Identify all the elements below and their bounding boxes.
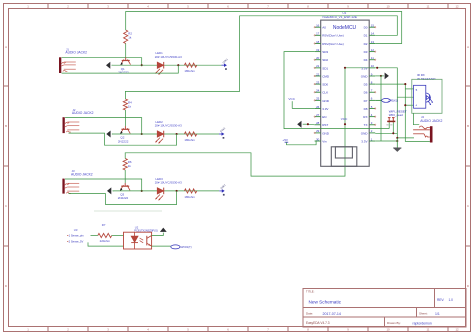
svg-text:12: 12 <box>455 4 459 8</box>
U1 pin 25 GND <box>314 97 330 103</box>
U1 pin 6 D7 <box>364 97 376 103</box>
svg-text:NodeMCU_V1_ESP-12E: NodeMCU_V1_ESP-12E <box>323 15 357 19</box>
svg-text:+5V: +5V <box>282 138 289 142</box>
svg-text:180ohm: 180ohm <box>184 69 195 73</box>
junction 3.3V pin10 <box>376 67 378 69</box>
svg-text:D3: D3 <box>364 50 368 54</box>
U1 pin 28 RST <box>315 121 329 127</box>
wire IR box to J4 tip <box>413 113 419 124</box>
svg-text:3.3V: 3.3V <box>361 66 368 70</box>
svg-text:14: 14 <box>371 32 375 36</box>
U1 pin 21 SD1 <box>314 64 328 70</box>
audio jack J1 <box>59 47 87 73</box>
svg-text:REV:: REV: <box>437 298 444 302</box>
svg-text:11: 11 <box>371 56 374 60</box>
optocoupler U2 PC817 <box>124 226 158 249</box>
junction IR pin3 node <box>404 104 406 106</box>
U1 pin 7 D6 <box>364 89 376 95</box>
U1 USB connector outline <box>331 147 357 167</box>
svg-text:2 Sense_5V: 2 Sense_5V <box>69 239 84 243</box>
svg-text:29: 29 <box>316 129 320 133</box>
junction VCC center <box>344 123 346 125</box>
U1 pin 12 D3 <box>364 48 376 54</box>
svg-text:1/1: 1/1 <box>435 312 440 316</box>
wire jack J2 tip to collector node <box>65 118 142 134</box>
svg-text:A: A <box>5 45 7 49</box>
LED LED2 <box>155 120 182 144</box>
svg-text:B: B <box>467 124 469 128</box>
svg-text:25: 25 <box>316 97 320 101</box>
junction LED3 cathode <box>176 190 178 192</box>
wire sense2 to opto pin2 <box>88 242 124 246</box>
net port D0K1 <box>219 183 227 195</box>
wire 3.3V pin1 to right vertical <box>375 140 397 142</box>
svg-text:IR RECEIVER: IR RECEIVER <box>417 77 435 81</box>
wire LED2 return to jack sleeve <box>69 133 177 145</box>
svg-text:180ohm: 180ohm <box>184 138 195 142</box>
resistor 180ohm block 3 <box>184 189 196 199</box>
svg-text:GND: GND <box>361 131 369 135</box>
U1 pin 18 RSV(Don't Use) <box>314 40 344 46</box>
svg-text:raptordemon: raptordemon <box>413 321 432 325</box>
junction GND pin9 <box>380 75 382 77</box>
junction LED2 cathode <box>176 133 178 135</box>
svg-text:D7: D7 <box>364 99 368 103</box>
svg-text:22: 22 <box>316 72 320 76</box>
svg-text:Vin: Vin <box>322 139 327 143</box>
junction RST <box>307 123 309 125</box>
resistor R4 1k <box>123 99 132 110</box>
wire R1 bottom to transistor base <box>125 44 127 58</box>
U1 pin 11 D4 <box>364 56 376 62</box>
U1 pin 14 D1 <box>364 32 376 38</box>
title block <box>303 289 466 328</box>
svg-text:Drawn By:: Drawn By: <box>387 321 401 325</box>
U1 pin 20 SD2 <box>314 56 328 62</box>
junction 3.3V pin1 <box>396 140 398 142</box>
svg-text:D1: D1 <box>364 34 368 38</box>
wire opto pin4 up <box>152 233 164 236</box>
junction center vertical <box>344 67 346 69</box>
svg-text:SD0: SD0 <box>322 83 328 87</box>
U1 pin 8 D5 <box>364 80 376 86</box>
resistor R2 1k <box>124 30 133 44</box>
power flag +5V <box>282 138 289 145</box>
audio jack J4 <box>413 115 442 142</box>
svg-text:D4: D4 <box>364 58 368 62</box>
svg-text:28: 28 <box>316 121 320 125</box>
transistor Q2 2N2222 <box>118 126 130 143</box>
svg-text:WIFI_read: WIFI_read <box>389 113 403 117</box>
svg-text:CMD: CMD <box>322 74 330 78</box>
wire rail block 3 <box>113 190 219 192</box>
svg-text:13: 13 <box>371 40 375 44</box>
junction node block 2 <box>141 133 143 135</box>
svg-text:10: 10 <box>371 64 375 68</box>
U1 pin 4 RX <box>363 113 376 119</box>
U1 pin 19 SD3 <box>315 48 329 54</box>
svg-text:Sheet:: Sheet: <box>419 312 428 316</box>
junction node block 3 <box>141 190 143 192</box>
NodeMCU module U1 <box>321 11 370 166</box>
resistor R6 1k <box>123 159 132 171</box>
wire sense pin to R7 <box>91 235 98 237</box>
net flag arrow up <box>160 228 167 232</box>
optocoupler U3 labels <box>67 228 84 243</box>
svg-text:19: 19 <box>316 48 320 52</box>
wire GND node to J4 middle pin <box>397 137 414 139</box>
wire rail block 1 <box>112 64 222 66</box>
svg-text:SD2: SD2 <box>322 58 328 62</box>
svg-text:20# 10UYC/S530-A3: 20# 10UYC/S530-A3 <box>155 181 182 185</box>
svg-text:GND: GND <box>322 99 330 103</box>
svg-text:A: A <box>467 45 469 49</box>
audio jack J2 <box>63 108 94 133</box>
transistor Q1 2N2222 <box>118 57 130 74</box>
ground symbol <box>393 138 401 152</box>
stray wire segment <box>94 210 162 212</box>
svg-text:30: 30 <box>316 137 320 141</box>
wire GND pin9 stub <box>375 75 381 77</box>
wire opto pin3 to net port <box>152 245 171 247</box>
U1 pin 22 CMD <box>314 72 330 78</box>
resistor 180ohm block 2 <box>184 132 196 142</box>
net port D2K1 <box>222 57 230 69</box>
svg-text:CLK: CLK <box>322 91 328 95</box>
svg-text:1k: 1k <box>128 35 132 39</box>
svg-text:AUDIO JACK2: AUDIO JACK2 <box>65 51 87 55</box>
push button S1 WIFI_RESET <box>386 110 406 125</box>
U1 pin 9 GND <box>361 72 375 78</box>
svg-text:2PE(K1): 2PE(K1) <box>388 99 398 103</box>
U1 pin 13 D2 <box>364 40 376 46</box>
svg-text:16: 16 <box>316 24 320 28</box>
transistor Q3 2N2222 <box>118 183 130 200</box>
svg-text:21: 21 <box>316 64 320 68</box>
svg-text:AUDIO JACK2: AUDIO JACK2 <box>420 119 442 123</box>
net flag arrow block 2 <box>106 131 113 138</box>
svg-text:12: 12 <box>455 327 459 331</box>
net flag arrow RST <box>297 121 315 128</box>
svg-text:3.3V: 3.3V <box>322 107 329 111</box>
net flag arrow block 1 <box>106 62 113 69</box>
svg-text:GPIO1(T): GPIO1(T) <box>180 245 191 249</box>
wire jack J1 tip to collector node <box>62 58 142 65</box>
svg-text:RSV(Don't Use): RSV(Don't Use) <box>322 42 344 46</box>
wire rail block 2 <box>112 133 219 135</box>
svg-text:D: D <box>5 284 7 288</box>
svg-text:RST: RST <box>322 123 328 127</box>
svg-text:D6: D6 <box>364 91 368 95</box>
svg-text:D5: D5 <box>364 83 368 87</box>
power flag VCC center <box>341 117 348 121</box>
U1 pin 30 Vin <box>315 137 327 143</box>
svg-text:2N2222: 2N2222 <box>118 71 129 75</box>
junction node block 1 <box>141 64 143 66</box>
svg-text:VCC: VCC <box>288 97 295 101</box>
svg-text:23: 23 <box>316 80 320 84</box>
net port D1K1 <box>219 126 227 138</box>
wire +5V to Vin pin 30 <box>286 141 316 145</box>
wire 3.3V pin10 down right side <box>375 68 397 138</box>
svg-text:VCC: VCC <box>341 117 348 121</box>
svg-text:11: 11 <box>427 327 430 331</box>
junction button leg <box>392 132 394 134</box>
resistor R7 220ohm <box>98 223 112 243</box>
title block text <box>306 290 453 326</box>
svg-text:+: + <box>415 104 417 108</box>
svg-text:1k: 1k <box>128 164 132 168</box>
svg-text:U3: U3 <box>74 228 78 232</box>
U1 pin 23 SD0 <box>314 80 328 86</box>
LED LED3 <box>155 177 182 201</box>
wire SD3 loop across to button <box>284 52 389 129</box>
svg-text:AUDIO JACK2: AUDIO JACK2 <box>71 173 93 177</box>
LED LED1 <box>155 51 182 75</box>
svg-text:Date:: Date: <box>306 312 313 316</box>
wire to IR pin 1 <box>405 88 413 90</box>
svg-text:18: 18 <box>316 40 320 44</box>
power flag VCC left <box>288 97 295 108</box>
svg-text:SD1: SD1 <box>322 66 328 70</box>
U1 pin 5 D8 <box>364 105 376 111</box>
wire button right leg to GND rail <box>392 123 394 134</box>
wire GND pin2 rail <box>375 132 397 134</box>
svg-text:RX: RX <box>363 115 367 119</box>
svg-text:D8: D8 <box>364 107 368 111</box>
audio jack J3 <box>62 169 92 193</box>
U1 pin 15 D0 <box>364 24 376 30</box>
wire LED3 return to jack sleeve <box>68 191 176 205</box>
U1 pin 1 3.3V <box>361 137 375 143</box>
svg-text:D2: D2 <box>364 42 368 46</box>
svg-text:10: 10 <box>386 4 390 8</box>
svg-text:GND: GND <box>361 74 369 78</box>
svg-text:GND: GND <box>322 131 330 135</box>
svg-text:2N2222: 2N2222 <box>118 196 129 200</box>
wire to IR pin 3 <box>405 104 413 106</box>
net flag arrow GND9 <box>381 73 389 80</box>
net port oval D7 <box>375 99 398 103</box>
wire VCC to 3.3V pin 26 <box>292 108 315 110</box>
U1 pin 29 GND <box>314 129 330 135</box>
svg-text:180ohm: 180ohm <box>184 195 195 199</box>
svg-text:2017-07-14: 2017-07-14 <box>323 312 341 316</box>
svg-text:15: 15 <box>371 24 375 28</box>
net port oval GPIO <box>171 245 192 249</box>
svg-text:D: D <box>467 284 469 288</box>
junction LED1 cathode <box>177 64 179 66</box>
wire R2 bottom to transistor base <box>124 110 126 126</box>
svg-text:A0: A0 <box>322 26 326 30</box>
svg-text:27: 27 <box>316 113 320 117</box>
wire branch to IR pin 2 <box>397 96 413 98</box>
wire R4 to NodeMCU D1 <box>125 16 397 99</box>
U1 pin 2 GND <box>361 129 375 135</box>
svg-text:20# 10UYC/S530-A3: 20# 10UYC/S530-A3 <box>155 55 182 59</box>
U1 pin 27 EN <box>314 113 326 119</box>
wire GND9 down right side <box>380 76 382 141</box>
svg-text:EN: EN <box>322 115 326 119</box>
U1 pin 16 A0 <box>314 24 326 30</box>
svg-text:B: B <box>5 124 7 128</box>
svg-text:11: 11 <box>427 4 430 8</box>
wire R7 to opto pin1 <box>112 235 124 237</box>
wire button left leg <box>388 123 390 129</box>
svg-text:1.0: 1.0 <box>449 298 454 302</box>
U1 pin 10 3.3V <box>361 64 375 70</box>
svg-text:R7: R7 <box>102 223 106 227</box>
wire R2 to NodeMCU D2 <box>126 12 402 44</box>
U1 pin 24 CLK <box>314 89 328 95</box>
svg-text:12: 12 <box>371 48 375 52</box>
wire jack J3 tip to collector node <box>65 179 142 191</box>
svg-text:D0: D0 <box>364 26 368 30</box>
svg-text:TX: TX <box>364 123 368 127</box>
svg-text:20# 10UYC/S530-A3: 20# 10UYC/S530-A3 <box>155 124 182 128</box>
wire center vertical to 3.3V pin 10 row <box>345 67 369 69</box>
svg-text:20: 20 <box>316 56 320 60</box>
U1 pin 3 TX <box>364 121 376 127</box>
svg-text:New Schematic: New Schematic <box>309 299 342 304</box>
svg-text:26: 26 <box>316 105 320 109</box>
svg-text:3.3V: 3.3V <box>361 139 368 143</box>
svg-text:RSV(Don't Use): RSV(Don't Use) <box>322 34 344 38</box>
U1 pin 17 RSV(Don't Use) <box>314 32 344 38</box>
svg-text:NodeMCU: NodeMCU <box>333 25 357 31</box>
svg-text:EasyEDA V4.7.3: EasyEDA V4.7.3 <box>306 321 330 325</box>
junction D5 <box>404 83 406 85</box>
svg-text:AUDIO JACK2: AUDIO JACK2 <box>72 111 94 115</box>
wire LED1 return to jack sleeve <box>62 65 179 73</box>
junction GND-J4 node <box>396 137 398 139</box>
svg-text:1 Sense_pin: 1 Sense_pin <box>69 233 84 237</box>
svg-text:220ohm: 220ohm <box>100 239 111 243</box>
wire R3 bottom to transistor base <box>124 170 126 183</box>
svg-text:17: 17 <box>316 32 320 36</box>
resistor 180ohm block 1 <box>184 63 196 73</box>
svg-text:TITLE:: TITLE: <box>306 290 315 294</box>
wire R6 to center vertical under NodeMCU <box>125 68 345 176</box>
svg-text:SD3: SD3 <box>322 50 328 54</box>
svg-text:24: 24 <box>316 89 320 93</box>
U1 pin 26 3.3V <box>315 105 330 111</box>
wire D5 pin8 to IR receiver and J4 <box>375 84 430 141</box>
svg-text:10: 10 <box>386 327 390 331</box>
svg-text:2N2222: 2N2222 <box>118 139 129 143</box>
IR receiver RL RX <box>412 73 442 113</box>
net flag arrow block 3 <box>107 187 114 194</box>
svg-text:C: C <box>467 204 469 208</box>
svg-text:C: C <box>5 204 7 208</box>
